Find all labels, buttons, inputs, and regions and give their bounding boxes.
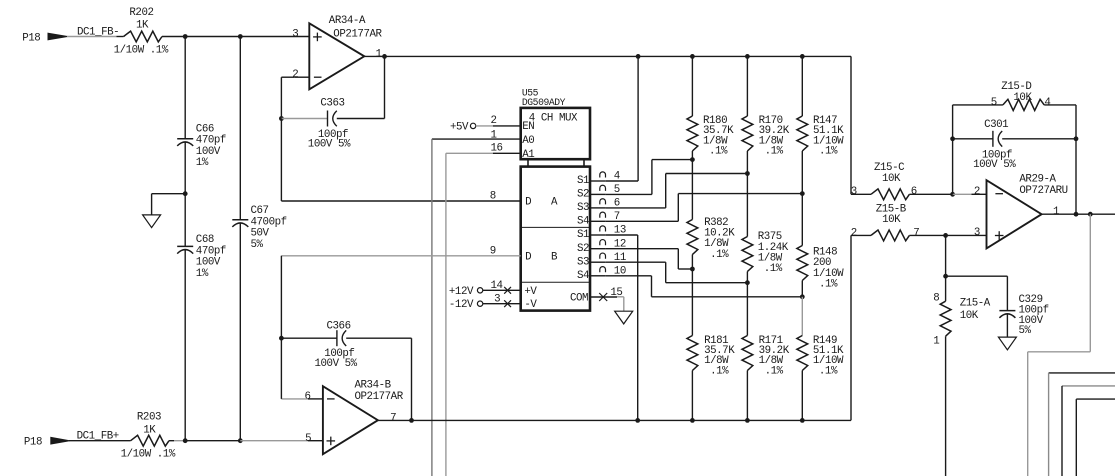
svg-text:+5V: +5V: [450, 121, 469, 133]
svg-text:+12V: +12V: [449, 286, 474, 298]
svg-text:1: 1: [933, 335, 939, 347]
svg-text:S1: S1: [577, 175, 589, 187]
svg-text:DG509ADY: DG509ADY: [522, 97, 566, 108]
svg-text:100V 5%: 100V 5%: [308, 138, 351, 150]
resistor R171 39.2K: [742, 283, 790, 421]
node junction C301 left: [950, 136, 955, 141]
node junction AR29 output branch: [1088, 212, 1093, 217]
wire S2B to R382 node: [606, 249, 693, 269]
wire corner bus 2: [1049, 373, 1115, 476]
svg-text:1/10W .1%: 1/10W .1%: [121, 448, 176, 460]
node junction R170/R375: [745, 171, 750, 176]
wire C67 to bottom rail: [239, 223, 241, 441]
resistor Z15-B 10K: [851, 203, 946, 241]
svg-text:D: D: [525, 197, 531, 209]
wire pin9 node vertical: [280, 256, 282, 399]
wire S4A to R147 node: [606, 194, 803, 222]
svg-text:3: 3: [292, 29, 298, 41]
node junction R147 top: [800, 54, 805, 59]
svg-text:B: B: [551, 252, 558, 264]
svg-text:A1: A1: [522, 149, 534, 161]
node junction R149 bottom: [800, 418, 805, 423]
wire COM to ground: [617, 297, 624, 311]
pin S3A stub pin 6: [590, 198, 620, 210]
svg-text:1: 1: [491, 130, 497, 142]
mux U55 DG509ADY upper box: [521, 87, 590, 166]
svg-text:3: 3: [974, 227, 980, 239]
wire C66 column upper: [184, 37, 186, 139]
capacitor C329 100pf: [999, 294, 1048, 337]
wire C68 to bottom rail: [184, 250, 186, 441]
wire S3A to R170 node: [606, 174, 748, 208]
svg-text:100V: 100V: [196, 146, 221, 158]
svg-text:P18: P18: [24, 436, 42, 448]
op-amp AR34-B OP2177AR: [305, 379, 404, 454]
power +12V source: [449, 286, 483, 298]
wire S3B to R375 node: [606, 262, 748, 283]
wire corner bus 4: [1076, 399, 1115, 476]
wire bottom rail to AR34-B pin5: [240, 440, 323, 442]
capacitor C301 100pf: [953, 119, 1076, 171]
svg-text:D: D: [525, 252, 531, 264]
wire C363 right lead: [337, 56, 385, 118]
resistor R203 1K: [121, 412, 176, 461]
wire D-A pin 8 label: [490, 190, 496, 202]
node junction R147/R148: [800, 191, 805, 196]
node junction C67 column bottom: [238, 438, 243, 443]
node junction R171 bottom: [745, 418, 750, 423]
pin S2B stub pin 12: [590, 238, 626, 250]
wire S1B to bottom rail: [606, 235, 638, 420]
svg-text:14: 14: [491, 280, 503, 292]
resistor R180 35.7K: [687, 56, 734, 159]
svg-text:.1%: .1%: [819, 279, 838, 291]
svg-text:S2: S2: [577, 243, 589, 255]
node junction R170 top: [745, 54, 750, 59]
wire C66 to ground node: [184, 142, 186, 194]
node junction ground tap: [183, 191, 188, 196]
wire A1 pin 16: [446, 142, 521, 154]
wire ground node to C68: [184, 194, 186, 247]
svg-text:1: 1: [1053, 206, 1059, 218]
svg-text:OP727ARU: OP727ARU: [1019, 185, 1067, 197]
resistor Z15-D 10K: [991, 81, 1051, 111]
wire ground stub: [152, 194, 186, 215]
resistor Z15-A 10K: [933, 276, 991, 476]
capacitor C366 100pf: [281, 320, 357, 370]
capacitor C66 470pf: [177, 123, 226, 169]
svg-text:AR34-B: AR34-B: [355, 379, 392, 391]
ground symbol mux COM: [615, 311, 633, 324]
svg-text:Z15-A: Z15-A: [960, 298, 991, 310]
svg-text:5: 5: [991, 97, 997, 109]
node junction C66 column top: [183, 34, 188, 39]
svg-text:100V 5%: 100V 5%: [973, 159, 1016, 171]
svg-text:S1: S1: [577, 229, 589, 241]
ground symbol C329: [998, 337, 1016, 350]
wire A1 vertical: [445, 153, 447, 476]
svg-text:2: 2: [292, 69, 298, 81]
svg-text:5: 5: [305, 433, 311, 445]
svg-text:4: 4: [1044, 97, 1050, 109]
node junction Z15-A top: [943, 274, 948, 279]
capacitor C67 4700pf: [232, 205, 286, 251]
wire pin3 node down: [945, 235, 947, 276]
svg-text:C66: C66: [196, 123, 214, 135]
wire AR34-A output: [364, 55, 851, 57]
pin S3B stub pin 11: [590, 252, 626, 264]
capacitor C363 100pf: [308, 97, 351, 150]
svg-text:10K: 10K: [960, 310, 979, 322]
svg-text:DC1_FB-: DC1_FB-: [77, 27, 119, 39]
svg-text:3: 3: [494, 293, 500, 305]
wire C366 right lead: [346, 338, 411, 420]
pin S4A stub pin 7: [590, 211, 620, 223]
svg-text:3: 3: [851, 186, 857, 198]
pin S4B stub pin 10: [590, 265, 626, 277]
svg-text:R202: R202: [129, 7, 153, 19]
svg-text:S3: S3: [577, 256, 589, 268]
svg-text:8: 8: [933, 292, 939, 304]
svg-text:1/10W .1%: 1/10W .1%: [114, 45, 169, 57]
svg-text:S2: S2: [577, 189, 589, 201]
node junction AR29 pin3: [943, 233, 948, 238]
svg-text:10K: 10K: [1013, 92, 1032, 104]
svg-text:7: 7: [390, 412, 396, 424]
svg-text:1K: 1K: [136, 20, 149, 32]
wire +V pin 14: [483, 280, 521, 294]
node junction C366 left: [279, 336, 284, 341]
resistor R147 51.1K: [797, 56, 844, 193]
svg-text:S4: S4: [577, 216, 589, 228]
wire A0 vertical: [431, 139, 433, 476]
resistor R181 35.7K: [687, 269, 735, 420]
wire R148 node to R149 gray: [801, 297, 803, 336]
svg-text:-V: -V: [524, 299, 537, 311]
wire C67 column upper: [239, 37, 241, 220]
svg-text:AR34-A: AR34-A: [329, 15, 366, 27]
svg-text:100V: 100V: [196, 257, 221, 269]
svg-text:-12V: -12V: [449, 299, 474, 311]
wire top rail corner down to Z15-C: [850, 56, 852, 194]
svg-text:C68: C68: [196, 234, 214, 246]
op-amp AR29-A OP727ARU: [974, 174, 1068, 249]
node junction S1B tap bottom: [635, 418, 640, 423]
svg-text:8: 8: [490, 190, 496, 202]
svg-text:9: 9: [490, 245, 496, 257]
svg-text:+V: +V: [524, 286, 537, 298]
svg-text:OP2177AR: OP2177AR: [333, 28, 382, 40]
svg-text:1: 1: [376, 48, 382, 60]
wire output branch gray: [1028, 214, 1091, 476]
pin S1B stub pin 13: [590, 225, 626, 237]
wire C329 to ground: [1006, 314, 1008, 337]
svg-text:1K: 1K: [143, 425, 156, 437]
svg-text:.1%: .1%: [765, 365, 784, 377]
node junction S1A tap: [636, 54, 641, 59]
svg-text:DC1_FB+: DC1_FB+: [77, 430, 119, 442]
resistor R382 10.2K: [687, 160, 735, 269]
node junction R148 bottom: [800, 294, 805, 299]
capacitor C68 470pf: [177, 234, 226, 280]
power +5V source: [450, 121, 476, 133]
svg-text:A: A: [551, 197, 558, 209]
power -12V source: [449, 299, 483, 311]
svg-text:.1%: .1%: [710, 365, 729, 377]
wire A0 pin 1 horizontal: [432, 130, 521, 142]
svg-text:2: 2: [851, 227, 857, 239]
svg-text:4700pf: 4700pf: [251, 216, 287, 228]
svg-text:EN: EN: [522, 121, 534, 133]
svg-text:P18: P18: [22, 33, 40, 45]
wire R203 tail: [169, 440, 185, 442]
svg-text:.1%: .1%: [819, 365, 838, 377]
wire bottom rail mid: [185, 440, 240, 442]
svg-text:7: 7: [913, 227, 919, 239]
svg-text:AR29-A: AR29-A: [1019, 174, 1056, 186]
svg-text:5%: 5%: [251, 239, 264, 251]
svg-text:16: 16: [491, 142, 503, 154]
svg-text:2: 2: [974, 186, 980, 198]
wire pin2 node to mux D-A: [281, 119, 520, 202]
wire AR34-A pin2 net: [281, 77, 309, 118]
svg-text:6: 6: [305, 391, 311, 403]
svg-text:100V 5%: 100V 5%: [315, 358, 358, 370]
node junction AR29 output feedback: [1074, 212, 1079, 217]
wire DC1_FB+ net: [69, 430, 131, 442]
svg-text:C301: C301: [984, 119, 1008, 131]
svg-text:.1%: .1%: [709, 145, 728, 157]
resistor R202 1K: [114, 7, 169, 56]
node junction R180 top: [690, 54, 695, 59]
wire Z15-D right net: [1044, 105, 1076, 214]
resistor R375 1.24K: [742, 174, 789, 283]
wire AR29 output: [1042, 213, 1115, 215]
resistor R149 51.1K: [797, 335, 844, 420]
wire D-B pin 9: [281, 245, 520, 257]
wire S4B to R148 node: [606, 276, 803, 297]
node junction C363 left: [279, 116, 284, 121]
pin S1A stub pin 4: [590, 171, 620, 183]
wire Z15-D left net: [953, 105, 1003, 194]
wire Z15-B out to AR29 pin3: [946, 234, 987, 236]
svg-text:.1%: .1%: [764, 263, 783, 275]
svg-text:10K: 10K: [882, 214, 901, 226]
resistor R170 39.2K: [742, 56, 790, 173]
wire C363 left lead: [281, 118, 327, 120]
wire Z15-A node to C329: [946, 276, 1008, 310]
node junction C67 column top: [238, 34, 243, 39]
node junction R180/R382: [690, 157, 695, 162]
port P18 (DC1_FB-): [22, 33, 67, 45]
svg-text:10K: 10K: [882, 173, 901, 185]
svg-text:470pf: 470pf: [196, 245, 226, 257]
svg-text:5%: 5%: [1019, 325, 1032, 337]
wire corner bus 3: [1062, 386, 1115, 476]
svg-text:1%: 1%: [196, 157, 209, 169]
op-amp AR34-A OP2177AR: [292, 15, 382, 89]
svg-text:S3: S3: [577, 202, 589, 214]
node junction AR34-B output: [409, 418, 414, 423]
wire S2A to R180 node: [606, 160, 693, 195]
resistor R148 200: [797, 194, 844, 297]
node junction R382 bottom: [690, 267, 695, 272]
node junction R181 bottom: [690, 418, 695, 423]
wire R202 to AR34-A pin3: [162, 36, 309, 38]
wire Z15-C out to AR29 pin2: [953, 193, 987, 195]
wire S1A to top rail: [606, 56, 638, 181]
node junction AR29 pin2: [950, 192, 955, 197]
svg-text:4 CH MUX: 4 CH MUX: [529, 112, 578, 124]
svg-text:COM: COM: [570, 293, 588, 305]
wire bottom rail corner up to Z15-B: [850, 235, 852, 420]
node junction C68 column bottom: [183, 438, 188, 443]
wire EN pin 2: [476, 115, 521, 127]
svg-text:50V: 50V: [251, 228, 270, 240]
wire AR34-B output: [378, 419, 851, 421]
svg-text:S4: S4: [577, 270, 589, 282]
wire AR34-B pin6 net: [281, 398, 323, 400]
port P18 (DC1_FB+): [24, 436, 70, 448]
svg-text:C363: C363: [320, 97, 344, 109]
pin S2A stub pin 5: [590, 184, 620, 196]
node junction AR34-A output: [382, 54, 387, 59]
node junction R375 bottom: [745, 280, 750, 285]
svg-text:.1%: .1%: [819, 145, 838, 157]
svg-text:.1%: .1%: [710, 249, 729, 261]
svg-text:6: 6: [911, 186, 917, 198]
pin COM stub pin 15: [590, 287, 622, 301]
wire DC1_FB- net: [67, 27, 124, 39]
mux U55 lower box: [521, 167, 590, 312]
svg-text:.1%: .1%: [765, 145, 784, 157]
node junction C301 right: [1074, 136, 1079, 141]
ground symbol left: [143, 215, 161, 228]
wire -V pin 3: [483, 293, 521, 307]
svg-text:1%: 1%: [196, 268, 209, 280]
svg-text:R203: R203: [137, 412, 161, 424]
svg-text:C366: C366: [327, 320, 351, 332]
resistor Z15-C 10K: [851, 162, 953, 200]
svg-text:2: 2: [491, 115, 497, 127]
svg-text:OP2177AR: OP2177AR: [355, 391, 404, 403]
svg-text:A0: A0: [522, 135, 534, 147]
